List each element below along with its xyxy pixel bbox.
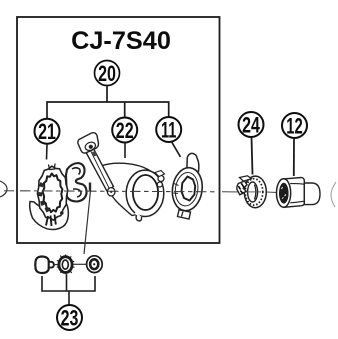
saddle marks xyxy=(46,215,56,227)
part 21 pulley unit xyxy=(30,163,90,230)
centerline dash left xyxy=(4,190,14,192)
leader 12 xyxy=(293,138,295,176)
dark teeth band left xyxy=(38,182,50,213)
knurl dot ring xyxy=(245,179,263,205)
hole inner arc xyxy=(255,185,256,200)
arm inner line xyxy=(91,151,110,189)
hook right xyxy=(66,163,87,202)
body plate xyxy=(101,163,159,215)
callout 20 xyxy=(95,61,120,86)
hex facets xyxy=(290,184,304,203)
leader 22 xyxy=(124,143,126,158)
bottom tab xyxy=(178,210,191,219)
cap face xyxy=(84,141,97,152)
washer middle xyxy=(59,257,72,273)
nut right xyxy=(87,256,103,273)
pin right of hook xyxy=(89,183,91,191)
svg-text:24: 24 xyxy=(242,112,260,137)
intermediate ring line xyxy=(173,171,200,207)
part 24 lock washer xyxy=(237,176,266,208)
svg-text:21: 21 xyxy=(38,119,56,144)
right edge fragment xyxy=(331,182,336,207)
callout 23 xyxy=(57,305,82,330)
svg-text:22: 22 xyxy=(116,118,134,143)
clamp bolt xyxy=(158,176,164,182)
centerline dash b xyxy=(74,263,88,265)
hook inner line xyxy=(72,168,81,197)
svg-text:11: 11 xyxy=(161,117,177,142)
top notch of ring xyxy=(49,164,56,170)
saddle bottom xyxy=(30,202,69,230)
hook tip bottom xyxy=(136,215,141,221)
outer ring xyxy=(37,166,67,220)
cap xyxy=(304,183,320,205)
leader 11 xyxy=(171,141,181,157)
band hatch xyxy=(174,184,179,194)
hex body xyxy=(284,178,305,208)
svg-text:20: 20 xyxy=(98,61,116,86)
bracket from 20 to 21/22/11 xyxy=(47,86,169,119)
leader 21 xyxy=(46,144,49,160)
callout 24 xyxy=(239,112,264,137)
svg-text:CJ-7S40: CJ-7S40 xyxy=(71,27,171,55)
small parts group 23 xyxy=(35,255,102,276)
callout 21 xyxy=(35,119,60,144)
bracket to 23 xyxy=(42,275,95,306)
pivot xyxy=(107,188,115,196)
ring slit bottom xyxy=(136,213,141,219)
leader 23 from lever to small parts xyxy=(84,191,91,255)
part 22 bell crank lever xyxy=(78,133,165,221)
inner hole xyxy=(248,182,258,202)
face ellipse xyxy=(277,179,291,207)
centerline right of box xyxy=(222,191,240,193)
threaded hole dark xyxy=(279,183,289,204)
svg-text:23: 23 xyxy=(61,306,79,331)
part 12 cap nut xyxy=(277,178,321,208)
bolt left xyxy=(35,256,49,273)
centerline dash a xyxy=(54,264,59,266)
inner hex hole xyxy=(182,177,196,201)
frame box xyxy=(17,17,220,243)
callout 11 xyxy=(156,117,181,142)
centerline through washer xyxy=(246,191,261,193)
callout 22 xyxy=(112,118,137,143)
left prong xyxy=(237,181,247,195)
centerline dashed through box xyxy=(20,191,216,192)
washer body xyxy=(244,176,266,208)
outer ring xyxy=(170,166,205,213)
part 11 fixing ring xyxy=(170,153,205,219)
top plate of tab xyxy=(240,176,252,181)
svg-text:12: 12 xyxy=(286,113,303,138)
top tab xyxy=(187,153,199,171)
cap xyxy=(78,133,99,153)
arm xyxy=(85,146,114,191)
inner jagged hole xyxy=(43,174,63,213)
cable stub xyxy=(92,151,97,157)
leader 24 xyxy=(252,137,253,175)
ring inner xyxy=(133,175,158,210)
C ring outer xyxy=(126,170,164,216)
callout 12 xyxy=(282,113,307,138)
left edge part fragment xyxy=(0,181,7,197)
